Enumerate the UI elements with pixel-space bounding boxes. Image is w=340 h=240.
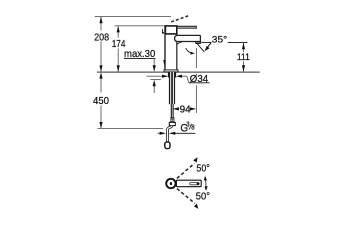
aerator xyxy=(196,42,201,44)
extension line top of lever (174 ref) xyxy=(115,25,166,27)
dia34 arrows xyxy=(147,75,163,77)
94 extension line from aerator xyxy=(195,48,197,113)
111 arrows xyxy=(242,43,245,49)
450 arrows xyxy=(99,72,102,78)
450 bottom extension line xyxy=(98,128,164,130)
flow arc under spout xyxy=(186,48,192,53)
svg-text:94: 94 xyxy=(180,104,191,116)
94 arrows xyxy=(173,107,179,110)
pivot swing arc xyxy=(161,29,164,34)
down arrow on body left edge xyxy=(163,60,166,66)
top view circle xyxy=(166,179,175,188)
svg-text:208: 208 xyxy=(94,31,109,43)
G3/8 dimension arrows xyxy=(157,132,160,134)
lower 50deg arrowhead xyxy=(194,204,198,209)
top view lever xyxy=(176,180,201,187)
hose nut threaded xyxy=(170,117,174,122)
base plate xyxy=(164,70,178,72)
center dot xyxy=(170,182,172,185)
svg-text:3: 3 xyxy=(186,121,189,128)
extension line top of raised lever (208 ref) xyxy=(95,16,171,18)
spout xyxy=(175,35,201,41)
max.30 lower extension line xyxy=(150,79,161,81)
max.30 lower arrow (up) xyxy=(153,86,155,93)
faucet body column xyxy=(165,26,177,70)
swing arc at lever tip xyxy=(204,177,207,189)
dimension 111 line xyxy=(243,43,245,72)
upper 50deg dashed lever position xyxy=(177,163,195,178)
flexible hose xyxy=(167,126,172,142)
threaded shank below deck xyxy=(168,72,176,78)
deck / mounting surface line xyxy=(97,71,260,73)
max.30 upper arrow (down to deck) xyxy=(153,58,155,66)
35deg leader horizontal right segment xyxy=(228,42,248,44)
dimension 94 line xyxy=(175,108,178,110)
dimension 450 line xyxy=(100,78,102,129)
lever slot xyxy=(190,183,200,185)
174 arrows xyxy=(117,26,120,32)
supply pipe below shank xyxy=(170,104,172,117)
svg-text:50°: 50° xyxy=(196,191,210,203)
svg-text:35°: 35° xyxy=(212,35,228,46)
svg-text:50°: 50° xyxy=(196,163,209,175)
svg-text:111: 111 xyxy=(237,52,250,62)
208 arrows xyxy=(99,17,102,23)
svg-text:450: 450 xyxy=(93,95,109,107)
dia34 label leader and underline xyxy=(187,76,189,83)
35deg leader arrow xyxy=(207,43,211,48)
hose nut hex xyxy=(169,122,175,125)
hose end connector xyxy=(165,142,170,149)
dashed raised lever xyxy=(171,15,190,22)
upper 50deg arrowhead xyxy=(193,157,197,162)
lower 50deg dashed lever position xyxy=(177,189,195,204)
dimension 208 line xyxy=(100,17,102,72)
cartridge cap xyxy=(165,26,176,34)
water stream line 35deg xyxy=(197,44,204,52)
dimension 174 line xyxy=(117,26,119,71)
svg-text:8: 8 xyxy=(191,125,194,132)
svg-text:Ø34: Ø34 xyxy=(190,73,209,85)
lever bar (horizontal) xyxy=(177,26,196,28)
35deg leader horizontal left segment xyxy=(201,41,211,43)
spout root fillet xyxy=(177,42,182,45)
